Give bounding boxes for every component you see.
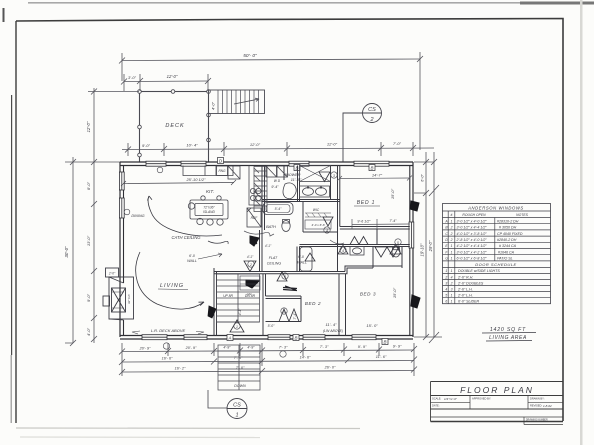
svg-text:# 3244 CA: # 3244 CA: [499, 244, 517, 248]
door bed1 entry: [319, 172, 330, 182]
kitchen: [121, 166, 262, 228]
svg-text:3: 3: [451, 287, 453, 291]
svg-text:4: 4: [445, 287, 447, 291]
wall bed1 west: [338, 166, 340, 273]
window top wall 4: [354, 161, 389, 166]
wall mbath/wic: [330, 166, 332, 200]
cooktop burners: [250, 188, 255, 193]
door bed3 entry: [338, 246, 348, 255]
svg-text:4: 4: [284, 275, 286, 279]
svg-text:19'-10": 19'-10": [420, 243, 425, 257]
stair main up-run: [217, 274, 260, 322]
svg-text:SCALE:: SCALE:: [432, 397, 442, 401]
svg-text:1/4"=1'-0": 1/4"=1'-0": [444, 397, 458, 401]
svg-text:9'- 9": 9'- 9": [393, 345, 402, 349]
door wic: [323, 217, 333, 226]
svg-text:2: 2: [450, 238, 453, 242]
svg-text:2'-6" R.H.: 2'-6" R.H.: [457, 275, 473, 279]
svg-text:ANDERSON WINDOWS: ANDERSON WINDOWS: [467, 206, 524, 211]
scanner streak right: [580, 0, 583, 445]
svg-text:BATH: BATH: [266, 225, 276, 229]
svg-text:2: 2: [444, 275, 447, 279]
svg-text:B: B: [294, 336, 297, 341]
svg-text:1: 1: [236, 325, 238, 329]
svg-text:4'-2 1/2" x 4'-4 1/2": 4'-2 1/2" x 4'-4 1/2": [457, 244, 488, 248]
svg-text:#28310-2 DH: #28310-2 DH: [497, 219, 519, 223]
deck posts: [138, 90, 211, 157]
svg-text:5'-0": 5'-0": [268, 324, 276, 328]
svg-text:11'- 4": 11'- 4": [325, 322, 337, 327]
fireplace: [103, 163, 134, 320]
svg-text:4: 4: [326, 229, 328, 233]
svg-text:1: 1: [451, 244, 453, 248]
svg-text:DINING: DINING: [131, 214, 144, 218]
window marker boxes bottom wall: [227, 335, 388, 345]
svg-text:7'-0": 7'-0": [393, 141, 402, 146]
faint page edge: [20, 436, 260, 439]
toilet hall bath: [392, 247, 400, 257]
svg-text:7'-4": 7'-4": [389, 219, 397, 223]
window top wall 3: [289, 161, 309, 166]
bed2 closet double doors: [279, 309, 299, 322]
svg-text:UP 8R: UP 8R: [223, 294, 233, 298]
wall hall/bed2-bed3 (y=271.5): [214, 272, 345, 274]
svg-text:REVISED:: REVISED:: [530, 403, 542, 407]
svg-text:15'-0": 15'-0": [390, 188, 395, 199]
wall laundry/bath: [298, 166, 300, 202]
svg-text:4'-1": 4'-1": [247, 255, 254, 259]
svg-text:3'-0 1/2" x 4'-4 1/2": 3'-0 1/2" x 4'-4 1/2": [457, 226, 488, 230]
svg-text:1: 1: [451, 294, 453, 298]
bed3 closet double doors: [375, 247, 399, 257]
wall bed2/bed3 divider: [339, 274, 346, 336]
svg-text:DRAWN BY:: DRAWN BY:: [530, 397, 545, 401]
section marker CS-2: [343, 104, 382, 163]
svg-text:1: 1: [451, 219, 453, 223]
svg-text:1: 1: [451, 269, 453, 273]
svg-text:25'-10 1/2": 25'-10 1/2": [185, 177, 206, 182]
svg-text:14'- 6": 14'- 6": [300, 356, 311, 360]
window bottom wall 2: [184, 335, 207, 340]
dim row 3: [122, 371, 414, 373]
svg-text:6'-0: 6'-0: [298, 255, 304, 259]
svg-text:DOUBLE w/SIDE LIGHTS: DOUBLE w/SIDE LIGHTS: [458, 269, 500, 273]
svg-text:2: 2: [450, 232, 453, 236]
counter east run: [249, 166, 262, 206]
svg-text:DRAWING NUMBER: DRAWING NUMBER: [526, 419, 548, 422]
svg-text:20'- 9": 20'- 9": [139, 347, 151, 351]
svg-text:12'-0": 12'-0": [86, 121, 91, 132]
svg-text:#1646 CA: #1646 CA: [498, 250, 515, 254]
svg-text:26'- 0": 26'- 0": [324, 366, 336, 370]
linen shelves hall: [240, 276, 260, 296]
svg-text:DOWN: DOWN: [234, 384, 246, 388]
master bath shower note: [263, 166, 331, 232]
svg-text:LIN: LIN: [247, 292, 253, 296]
svg-text:DOOR SCHEDULE: DOOR SCHEDULE: [475, 262, 516, 267]
svg-text:3'-0 1/2" x 4'-0 1/2": 3'-0 1/2" x 4'-0 1/2": [457, 219, 488, 223]
door bed2 entry: [277, 272, 287, 281]
svg-text:PATIO SL: PATIO SL: [497, 257, 513, 261]
wall stairwell west: [214, 268, 217, 336]
deck outline: [140, 92, 209, 163]
hall bath sink: [350, 247, 364, 256]
svg-text:2'-8 1/2" x 4'-0 1/2": 2'-8 1/2" x 4'-0 1/2": [456, 238, 488, 242]
scanner streak left: [11, 95, 12, 355]
svg-text:FLAT: FLAT: [269, 256, 278, 260]
svg-text:KIT.: KIT.: [206, 189, 214, 194]
right dimension lines: [414, 152, 442, 343]
dark dash scribble hall: [283, 286, 297, 291]
window bottom wall 4: [303, 335, 325, 340]
faint bottom border: [16, 427, 360, 430]
stair lower (below house, DOWN): [218, 345, 260, 390]
window left wall 2: [119, 198, 124, 218]
svg-text:1420 SQ FT: 1420 SQ FT: [490, 327, 526, 333]
svg-text:DATE:: DATE:: [432, 404, 440, 408]
svg-text:10'- 4": 10'- 4": [186, 143, 198, 148]
section marker CS-1: [208, 390, 247, 419]
svg-text:3'-0": 3'-0": [128, 75, 137, 80]
svg-text:REF: REF: [251, 216, 259, 220]
counter top run: [183, 166, 233, 176]
svg-text:42" F.P.: 42" F.P.: [127, 294, 131, 304]
toilet master: [282, 221, 290, 232]
svg-text:APPROVED BY:: APPROVED BY:: [472, 397, 491, 401]
window top wall 2: [181, 161, 206, 166]
circled marker on dim row: [163, 343, 286, 357]
big living room sweep arrow: [136, 252, 204, 309]
laundry washer-dryer: [266, 166, 288, 183]
wall bed1 closet top: [340, 227, 410, 230]
deck stairs: [209, 90, 265, 114]
dim row 2: [122, 361, 414, 363]
svg-text:4'-0 x 6'-8: 4'-0 x 6'-8: [312, 223, 325, 227]
svg-text:30'-0": 30'-0": [64, 246, 69, 258]
svg-text:2: 2: [249, 263, 252, 267]
svg-text:15'- 0": 15'- 0": [366, 323, 378, 328]
extension verticals: [122, 343, 414, 376]
wall small bath top: [300, 245, 338, 247]
svg-text:6'-0": 6'-0": [421, 174, 425, 182]
bed1 closet double doors: [350, 237, 368, 245]
window marker boxes top wall: [218, 158, 376, 171]
svg-text:2: 2: [450, 281, 453, 285]
svg-text:LIVING: LIVING: [160, 283, 184, 289]
svg-text:72"x36": 72"x36": [203, 206, 215, 210]
svg-text:B: B: [370, 166, 373, 171]
scanner streak top: [28, 2, 594, 4]
double vanity: [300, 186, 330, 197]
svg-text:9'-4": 9'-4": [271, 185, 279, 189]
svg-text:9'-0": 9'-0": [86, 293, 91, 302]
window left wall: [119, 172, 124, 190]
island stools: [188, 203, 194, 209]
svg-text:CS: CS: [233, 403, 241, 409]
wall bed3 closet: [373, 247, 402, 269]
bed1 closet dims: [352, 223, 410, 226]
window schedule table: [443, 204, 551, 304]
shower enclosure: [300, 166, 331, 182]
wall hall west of bath: [297, 247, 300, 272]
svg-text:#2840-2 DH: #2840-2 DH: [497, 238, 517, 242]
svg-text:(LIN ABOVE): (LIN ABOVE): [323, 329, 343, 333]
svg-text:7'- 0": 7'- 0": [236, 366, 245, 370]
dim row above house top wall: 9'-0 10'-4 12'-0 12'-0 7'-0: [122, 148, 434, 150]
bottom dimension rows: [119, 343, 417, 376]
left inner dim line: [93, 88, 95, 343]
svg-text:4'-0": 4'-0": [211, 101, 216, 110]
svg-text:9'-6 1/2": 9'-6 1/2": [357, 220, 371, 224]
svg-text:1: 1: [451, 250, 453, 254]
svg-text:#: #: [451, 213, 453, 217]
svg-text:B: B: [383, 340, 386, 345]
bed2 closet: [263, 296, 301, 336]
door living south: [230, 320, 244, 332]
svg-text:4'-9": 4'-9": [247, 346, 255, 350]
svg-text:16'- 2": 16'- 2": [175, 367, 186, 371]
svg-text:WALL: WALL: [297, 261, 307, 265]
svg-text:7'- 6": 7'- 6": [234, 356, 243, 360]
svg-text:6: 6: [283, 310, 285, 314]
door hall to living: [244, 261, 256, 272]
wall closet divider: [376, 229, 378, 245]
svg-text:5'-4": 5'-4": [275, 207, 283, 211]
svg-text:3'-0 1/2" x 4'-2 1/2": 3'-0 1/2" x 4'-2 1/2": [457, 250, 488, 254]
svg-text:4'-1": 4'-1": [265, 244, 272, 248]
svg-text:16'- 6": 16'- 6": [162, 357, 173, 361]
svg-text:7'- 3": 7'- 3": [279, 346, 288, 350]
bottom wall: [120, 335, 413, 337]
svg-text:BED 3: BED 3: [360, 292, 376, 297]
pantry box: [228, 166, 240, 179]
svg-text:CP 4040 FIXED: CP 4040 FIXED: [497, 232, 523, 236]
window top wall 1: [146, 161, 166, 166]
svg-text:WIC: WIC: [313, 208, 320, 212]
svg-text:6: 6: [445, 300, 447, 304]
svg-text:9'-0": 9'-0": [142, 143, 151, 148]
garden tub: [283, 183, 296, 199]
ceiling note arrow upper: [148, 196, 222, 236]
svg-text:2'-6" DOUBLES: 2'-6" DOUBLES: [457, 281, 484, 285]
kitchen island: [190, 200, 228, 219]
svg-text:NOTES: NOTES: [516, 213, 528, 217]
svg-text:2'-6" L.H.: 2'-6" L.H.: [457, 287, 473, 291]
svg-text:ISLAND: ISLAND: [203, 210, 216, 214]
second dim row 3'-0 / 12'-0: [124, 80, 208, 83]
circled marker window G: [157, 167, 163, 173]
svg-text:FLOOR PLAN: FLOOR PLAN: [460, 385, 534, 395]
door hall bath: [390, 245, 401, 255]
left dimension lines: [64, 88, 139, 346]
window bottom wall 5: [352, 335, 376, 340]
circled door numbers: [234, 172, 401, 329]
dark blob stair bottom: [208, 306, 216, 318]
svg-text:2'-0": 2'-0": [108, 272, 116, 276]
stair upper (kitchen side shaft): [254, 167, 267, 212]
wall kitchen/stair east: [262, 166, 265, 231]
svg-text:4: 4: [451, 275, 453, 279]
svg-text:12'-0": 12'-0": [250, 142, 261, 147]
svg-text:1: 1: [445, 269, 447, 273]
svg-text:12'-0": 12'-0": [327, 142, 338, 147]
svg-text:RNG: RNG: [218, 169, 226, 173]
svg-text:DECK: DECK: [165, 123, 184, 129]
wall bed3 top jog: [345, 266, 373, 274]
window bottom wall 1: [142, 335, 167, 340]
svg-text:SHOWER: SHOWER: [283, 173, 300, 177]
svg-text:4'-0": 4'-0": [86, 327, 91, 336]
svg-text:1: 1: [451, 257, 453, 261]
svg-text:6'-0 1/2" x 6'-8 1/2": 6'-0 1/2" x 6'-8 1/2": [457, 257, 488, 261]
wall bed1 closet bottom / hall top: [338, 245, 410, 247]
wall bed2 west: [263, 274, 266, 296]
bath2 tub: [300, 247, 312, 271]
svg-text:15'-0": 15'-0": [392, 287, 397, 298]
svg-text:14'-7": 14'-7": [372, 173, 383, 178]
svg-text:A: A: [227, 336, 231, 341]
svg-text:6'-0" SLIDER: 6'-0" SLIDER: [458, 300, 480, 304]
door hall small: [305, 253, 315, 261]
left wall: [119, 162, 121, 337]
svg-text:5: 5: [397, 241, 399, 245]
svg-text:# 3050 DH: # 3050 DH: [499, 226, 517, 230]
svg-text:3: 3: [445, 281, 447, 285]
dark blob pantry door: [250, 236, 259, 246]
top wall: [120, 161, 413, 163]
dark blob right wall bed3 window: [411, 295, 420, 308]
svg-text:L.R. DECK ABOVE: L.R. DECK ABOVE: [151, 328, 186, 333]
svg-text:3: 3: [333, 174, 335, 178]
svg-text:CEILING: CEILING: [267, 262, 282, 266]
svg-text:1-8-02: 1-8-02: [543, 404, 552, 408]
door swings and dark blobs: [230, 172, 401, 332]
master tub: [263, 203, 293, 215]
svg-text:4'-9": 4'-9": [223, 346, 231, 350]
sq ft note: [482, 327, 536, 341]
wall wic east: [303, 202, 338, 233]
wall bath south (y=199): [262, 200, 340, 202]
svg-text:BED 2: BED 2: [305, 301, 321, 306]
kitchen curl arrow: [244, 231, 344, 244]
range box: [217, 166, 228, 176]
svg-text:LIVING AREA: LIVING AREA: [489, 335, 527, 341]
svg-text:8'-0": 8'-0": [86, 181, 91, 190]
svg-text:G: G: [445, 257, 448, 261]
svg-text:7'-4": 7'-4": [293, 312, 297, 320]
svg-text:1: 1: [235, 413, 238, 419]
svg-text:2: 2: [369, 117, 373, 123]
dim row 1: [122, 350, 414, 352]
title block: [431, 382, 564, 425]
house outer walls: [119, 158, 413, 345]
room labels and annotations: [132, 172, 412, 334]
interior walls: [214, 166, 410, 336]
svg-text:WALL: WALL: [187, 259, 197, 263]
svg-text:5: 5: [445, 294, 447, 298]
svg-text:2'-0" L.H.: 2'-0" L.H.: [457, 294, 473, 298]
svg-text:50'- 0": 50'- 0": [243, 53, 257, 59]
svg-text:4: 4: [342, 249, 344, 253]
svg-text:ROUGH OPEN: ROUGH OPEN: [462, 213, 486, 217]
interior dim bed1: [340, 177, 410, 180]
dark blob right wall bed1 door: [410, 201, 419, 211]
svg-text:7'- 3": 7'- 3": [320, 345, 329, 349]
top overall dimension line: [119, 52, 434, 156]
dark blob hall linen: [246, 280, 259, 288]
svg-text:BED 1: BED 1: [357, 200, 375, 206]
svg-text:9'- 9": 9'- 9": [358, 345, 367, 349]
svg-text:12'-0": 12'-0": [167, 74, 178, 79]
svg-text:4'-1": 4'-1": [238, 308, 242, 315]
wire deck right edge to house: [208, 114, 210, 163]
window right wall: [409, 222, 414, 248]
deck stairs arrow: [234, 99, 259, 104]
svg-text:1: 1: [451, 300, 453, 304]
svg-text:CS: CS: [368, 107, 376, 113]
interior dim 25-10: [124, 183, 235, 184]
svg-text:W D: W D: [274, 179, 281, 183]
pantry/ref box: [247, 208, 261, 227]
svg-text:20'- 9": 20'- 9": [185, 346, 197, 350]
svg-text:4'-0 1/2" x 3'-8 1/2": 4'-0 1/2" x 3'-8 1/2": [457, 232, 488, 236]
svg-text:13'-0": 13'-0": [86, 235, 91, 246]
svg-text:2: 2: [450, 226, 453, 230]
svg-text:6'-0: 6'-0: [189, 254, 195, 258]
window bottom wall 3: [268, 335, 290, 340]
right wall: [412, 162, 414, 337]
svg-text:11'- 6": 11'- 6": [376, 355, 387, 359]
wall stairwell east: [260, 230, 263, 272]
wall laundry east low: [283, 166, 285, 181]
hall bath fixtures: [240, 186, 400, 271]
svg-text:29'-0": 29'-0": [428, 240, 433, 252]
